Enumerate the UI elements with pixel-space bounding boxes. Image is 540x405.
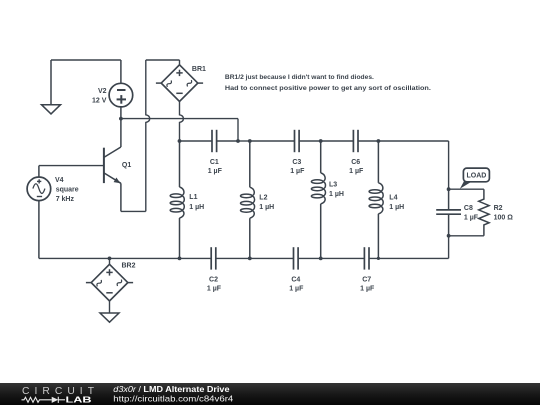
wire — [238, 140, 250, 142]
voltage source V4 — [27, 166, 79, 259]
capacitor C4 — [289, 247, 304, 292]
inductor L4 — [369, 141, 404, 258]
svg-text:Had to connect positive power: Had to connect positive power to get any… — [225, 85, 431, 92]
wire — [109, 258, 111, 264]
svg-text:Q1: Q1 — [122, 162, 131, 169]
voltage source V2 — [92, 60, 133, 119]
wire — [216, 257, 293, 259]
svg-text:100 Ω: 100 Ω — [494, 215, 514, 222]
ground — [42, 60, 61, 114]
wire — [449, 188, 484, 190]
wire — [378, 140, 448, 142]
wire — [448, 236, 450, 259]
wire — [51, 59, 121, 61]
node junction — [447, 234, 451, 238]
svg-text:1 µH: 1 µH — [389, 204, 404, 211]
svg-text:square: square — [56, 187, 79, 194]
wire — [298, 257, 364, 259]
svg-text:d3x0r / LMD Alternate Drive: d3x0r / LMD Alternate Drive — [113, 385, 230, 394]
wire — [321, 140, 354, 142]
wire — [369, 257, 449, 259]
svg-text:1 µF: 1 µF — [349, 168, 364, 175]
node junction — [248, 139, 252, 143]
resistor R2 — [479, 189, 514, 236]
node junction — [377, 139, 381, 143]
svg-text:1 µF: 1 µF — [207, 286, 222, 293]
flag LOAD — [460, 168, 490, 189]
capacitor C8 — [436, 189, 479, 236]
wire — [39, 257, 211, 259]
svg-text:1 µH: 1 µH — [329, 191, 344, 198]
svg-text:1 µF: 1 µF — [360, 286, 375, 293]
svg-text:BR1/2 just because I didn't wa: BR1/2 just because I didn't want to find… — [225, 74, 374, 81]
node junction — [178, 257, 182, 261]
svg-text:C2: C2 — [209, 277, 218, 284]
svg-text:BR1: BR1 — [192, 66, 206, 73]
wire — [237, 119, 239, 141]
svg-text:12 V: 12 V — [92, 98, 107, 105]
wire (emitter riser, hops over feed) — [146, 60, 150, 211]
wire — [109, 301, 111, 313]
wire — [121, 210, 146, 212]
capacitor C3 — [290, 130, 305, 175]
svg-text:L1: L1 — [189, 194, 197, 201]
svg-text:L3: L3 — [329, 182, 337, 189]
logo resistor-diode glyph — [22, 397, 66, 403]
capacitor C7 — [360, 247, 375, 292]
inductor L1 — [170, 141, 204, 258]
svg-text:7 kHz: 7 kHz — [56, 196, 75, 203]
wire — [39, 165, 104, 167]
wire — [448, 141, 450, 189]
svg-text:1 µF: 1 µF — [290, 168, 305, 175]
svg-text:1 µF: 1 µF — [289, 286, 304, 293]
wire — [179, 60, 181, 65]
bridge rectifier BR2 — [86, 263, 136, 301]
wire — [146, 59, 180, 61]
wire (BR1 output, hops over feed) — [180, 101, 184, 141]
node junction — [319, 139, 323, 143]
wire — [358, 140, 378, 142]
footer bar — [0, 383, 540, 405]
wire — [180, 140, 213, 142]
node junction — [108, 257, 112, 261]
ground — [100, 313, 119, 322]
svg-text:L4: L4 — [389, 194, 397, 201]
capacitor C6 — [349, 130, 364, 175]
wire — [250, 140, 295, 142]
svg-text:C3: C3 — [292, 159, 301, 166]
svg-text:1 µH: 1 µH — [189, 204, 204, 211]
capacitor C1 — [208, 130, 223, 175]
svg-text:1 µF: 1 µF — [464, 215, 479, 222]
svg-text:V2: V2 — [98, 88, 107, 95]
svg-text:BR2: BR2 — [122, 263, 136, 270]
svg-text:LOAD: LOAD — [466, 173, 486, 180]
wire — [299, 140, 321, 142]
svg-text:LAB: LAB — [66, 396, 93, 405]
inductor L3 — [311, 141, 344, 258]
svg-text:C4: C4 — [291, 277, 300, 284]
node junction — [248, 257, 252, 261]
wire — [217, 140, 238, 142]
wire — [449, 235, 484, 237]
bridge rectifier BR1 — [156, 65, 206, 102]
svg-text:V4: V4 — [55, 177, 64, 184]
svg-text:http://circuitlab.com/c84v6r4: http://circuitlab.com/c84v6r4 — [113, 394, 234, 403]
svg-text:1 µF: 1 µF — [208, 168, 223, 175]
node junction — [447, 187, 451, 191]
wire — [121, 118, 238, 120]
inductor L2 — [241, 141, 275, 258]
node junction — [319, 257, 323, 261]
transistor Q1 — [104, 119, 131, 212]
svg-text:C6: C6 — [351, 159, 360, 166]
svg-text:C7: C7 — [362, 277, 371, 284]
svg-text:L2: L2 — [259, 194, 267, 201]
svg-text:C8: C8 — [464, 205, 473, 212]
node junction — [178, 139, 182, 143]
node junction — [119, 117, 123, 121]
svg-text:C1: C1 — [210, 159, 219, 166]
capacitor C2 — [207, 247, 222, 292]
node junction — [377, 257, 380, 260]
node junction — [236, 139, 240, 143]
svg-text:R2: R2 — [494, 205, 503, 212]
svg-text:1 µH: 1 µH — [259, 204, 274, 211]
